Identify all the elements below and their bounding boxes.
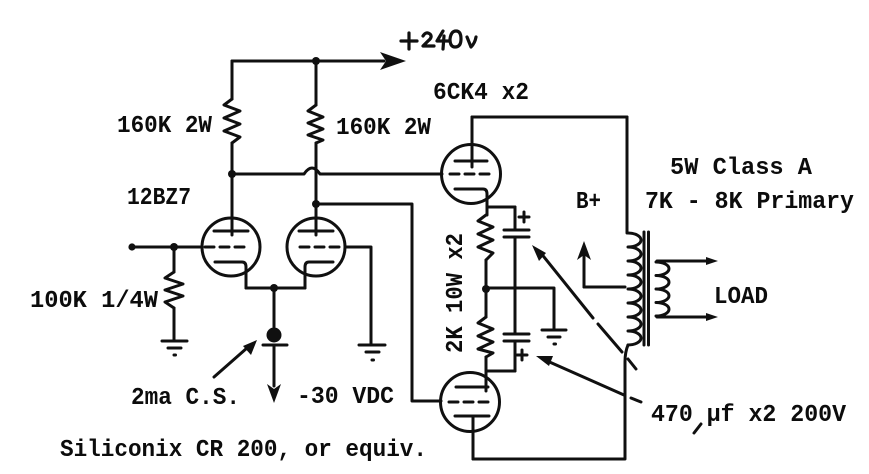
arrow: B+ up arrow: [577, 241, 591, 287]
transformer T1 core: [644, 232, 649, 345]
svg-text:6CK4 x2: 6CK4 x2: [433, 80, 529, 107]
label: 160K 2W (left): [117, 113, 213, 140]
arrow: 2ma C.S. callout pointing at current source: [214, 340, 257, 377]
wire: R2 down to right triode plate: [315, 143, 318, 231]
capacitor C2 plates: [504, 334, 529, 341]
label: 6CK4 x2: [433, 80, 529, 107]
resistor R3 100K 1/4W: [165, 272, 183, 308]
node: middle of 2K chain: [482, 285, 490, 293]
ground: middle node: [542, 330, 566, 344]
label: 100K 1/4W: [30, 288, 159, 315]
label: B+: [576, 189, 601, 216]
svg-text:7K - 8K Primary: 7K - 8K Primary: [645, 189, 854, 216]
wire: R5 to bottom node: [485, 357, 488, 374]
wire: cathodes joined: [246, 287, 305, 290]
wire: bottom return to transformer primary bottom: [473, 345, 628, 459]
wire: B+ to transformer primary center tap: [584, 286, 625, 289]
tube: 6CK4 U3 (lower): [441, 373, 500, 432]
label: 2ma C.S.: [131, 385, 240, 412]
svg-text:160K 2W: 160K 2W: [336, 115, 432, 142]
wire: 100K bottom lead: [173, 308, 176, 340]
capacitor C1 bottom lead: [514, 237, 517, 288]
wire: right triode grid to ground: [345, 247, 371, 344]
svg-text:Siliconix CR 200, or equiv.: Siliconix CR 200, or equiv.: [60, 437, 427, 464]
label: 7K - 8K Primary: [645, 189, 854, 216]
svg-text:12BZ7: 12BZ7: [127, 185, 191, 212]
label: 160K 2W (right): [336, 115, 432, 142]
wire: coupling from R1 node to upper 6CK4 grid (with hop over R2 lead): [232, 168, 442, 174]
wire: from right plate node to lower 6CK4 grid: [316, 204, 441, 401]
label: 470 uf x2 200V: [651, 402, 847, 433]
wire: R4 to middle node: [485, 260, 488, 289]
label: C2 plus sign: [517, 350, 527, 360]
svg-text:LOAD: LOAD: [714, 284, 768, 311]
tube: 6CK4 U2 (upper): [442, 117, 501, 207]
svg-text:2K 10W x2: 2K 10W x2: [443, 233, 470, 353]
resistor R2 160K 2W (right): [308, 105, 323, 143]
wire: current source to -30 VDC arrow: [273, 346, 276, 386]
transformer T1 primary winding: [628, 233, 641, 345]
wire: secondary bottom lead to LOAD: [657, 313, 718, 321]
wire: rail to left 160K resistor: [231, 61, 234, 99]
resistor R1 160K 2W (left): [224, 99, 240, 143]
label: +240 v (handwritten): [401, 31, 476, 49]
node: junction input / 100K: [170, 243, 178, 251]
arrow: callout from 470uF label to C1: [532, 245, 636, 369]
svg-text:160K 2W: 160K 2W: [117, 113, 213, 140]
tube: 12BZ7 triode U1b (right): [287, 204, 345, 288]
ground: right triode grid: [359, 345, 385, 360]
svg-text:2ma C.S.: 2ma C.S.: [131, 385, 240, 412]
wire: R1 to left triode plate: [231, 143, 234, 231]
wire: upper cathode to 2K chain and C1: [487, 207, 515, 215]
capacitor C2 bottom lead: [514, 341, 517, 371]
wire: +240V supply rail top: [232, 60, 384, 63]
capacitor C1 470uF lead top: [514, 207, 517, 229]
label: -30 VDC: [297, 384, 394, 411]
label: C1 plus sign: [519, 212, 529, 222]
label: LOAD: [714, 284, 768, 311]
label: 5W Class A: [670, 155, 813, 182]
resistor R4 2K 10W (upper): [478, 215, 493, 260]
arrowhead: +240V supply arrow: [380, 52, 406, 70]
node: input terminal dot: [128, 243, 135, 250]
wire: 100K top lead: [173, 247, 176, 272]
wire: input to left triode grid: [132, 246, 202, 249]
wire: lower 6CK4 cathode to bottom return: [472, 431, 475, 459]
wire: middle node to R5: [485, 289, 488, 317]
svg-text:B+: B+: [576, 189, 601, 216]
wire: secondary top lead to LOAD: [657, 257, 718, 265]
svg-text:-30 VDC: -30 VDC: [297, 384, 394, 411]
node: junction R2 / plate / drive wire: [312, 200, 320, 208]
svg-text:5W Class A: 5W Class A: [670, 155, 813, 182]
wire: rail to right 160K resistor: [315, 61, 318, 105]
current source CS1 (2ma) symbol: [263, 328, 287, 346]
transformer T1 secondary winding: [656, 262, 669, 316]
wire: bottom node joins C2 and lower tube plate: [486, 371, 515, 373]
capacitor C1 plates: [504, 230, 529, 237]
wire: middle node to ground: [486, 288, 554, 329]
resistor R5 2K 10W (lower): [478, 317, 493, 357]
arrowhead: -30 VDC down arrow: [267, 384, 281, 403]
tube: 12BZ7 triode U1a (left): [202, 174, 260, 288]
wire: upper 6CK4 plate to B+ rail top: [472, 116, 627, 119]
svg-text:470 µf x2 200V: 470 µf x2 200V: [651, 402, 847, 429]
node: junction of supply rail and right 160K: [312, 57, 320, 65]
node: junction R1 / coupling wire: [228, 170, 236, 178]
arrow: callout from 470uF label to C2: [536, 356, 641, 402]
wire: cathode junction down to current source: [273, 288, 276, 327]
label: 2K 10W x2 (vertical): [443, 233, 470, 353]
svg-text:100K 1/4W: 100K 1/4W: [30, 288, 159, 315]
ground: below 100K: [162, 341, 187, 355]
label: Siliconix CR 200, or equiv.: [60, 437, 427, 464]
wire: B+ rail right side down to transformer primary: [626, 117, 629, 233]
label: 12BZ7: [127, 185, 191, 212]
node: cathode junction: [270, 284, 278, 292]
capacitor C2 top lead: [514, 288, 517, 333]
